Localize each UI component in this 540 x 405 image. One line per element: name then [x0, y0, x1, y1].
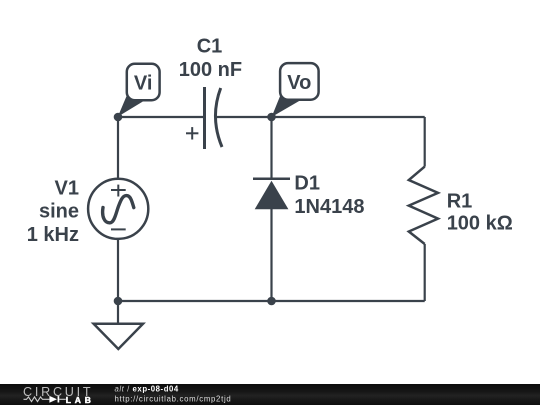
wire: middle branch from Vo node down to diode cathode	[270, 117, 272, 179]
node flag Vo	[272, 63, 319, 117]
CircuitLab logo	[23, 385, 95, 405]
wire: top net from Vi node to capacitor C1 left plate	[118, 116, 205, 118]
svg-text:http://circuitlab.com/cmp2tjd: http://circuitlab.com/cmp2tjd	[115, 395, 232, 404]
wire: left branch from Vi node down to V1 plus terminal	[117, 117, 119, 179]
node junction dot Vo	[267, 113, 276, 122]
wire: from diode anode down to bottom-middle node	[270, 209, 272, 301]
node junction dot bottom-left	[114, 297, 123, 306]
svg-text:1 kHz: 1 kHz	[27, 224, 79, 246]
svg-text:100 nF: 100 nF	[179, 59, 242, 81]
svg-text:V1: V1	[55, 177, 79, 199]
svg-text:alt / exp-08-d04: alt / exp-08-d04	[115, 385, 179, 394]
diode D1	[253, 179, 290, 210]
wire: stub from bottom-left node to ground symbol	[117, 301, 119, 324]
node junction dot Vi	[114, 113, 123, 122]
wire: top net from Vo node to top-right corner	[272, 116, 425, 118]
svg-text:1N4148: 1N4148	[294, 196, 364, 218]
footer bar background	[0, 384, 540, 405]
svg-text:D1: D1	[294, 173, 320, 195]
wire: from V1 minus terminal down to bottom-left node	[117, 239, 119, 301]
svg-text:R1: R1	[447, 190, 473, 212]
svg-text:100 kΩ: 100 kΩ	[447, 213, 513, 235]
svg-text:sine: sine	[39, 201, 79, 223]
ground	[94, 324, 143, 349]
node flag Vi	[118, 64, 160, 117]
svg-text:Vi: Vi	[134, 73, 153, 95]
node junction dot bottom-middle	[267, 297, 276, 306]
voltage source V1	[88, 179, 148, 239]
capacitor C1	[186, 87, 222, 149]
svg-text:Vo: Vo	[287, 72, 311, 94]
resistor R1	[409, 167, 438, 244]
svg-text:C1: C1	[197, 36, 223, 58]
svg-text:LAB: LAB	[66, 395, 95, 405]
wire: bottom net from ground node to bottom-right corner	[118, 300, 425, 302]
wire: top net from capacitor C1 right plate to Vo node	[216, 116, 272, 118]
wire: from resistor R1 down to bottom-right corner	[424, 244, 426, 301]
wire: right branch from top-right corner down to resistor R1	[424, 117, 426, 167]
